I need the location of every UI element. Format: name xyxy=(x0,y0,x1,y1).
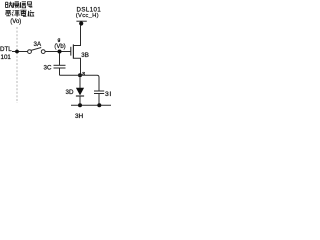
svg-text:(Vb): (Vb) xyxy=(54,44,65,50)
node Vo junction dot xyxy=(15,50,19,54)
信 xyxy=(19,2,22,8)
位 xyxy=(28,10,34,16)
svg-text:3C: 3C xyxy=(44,64,52,71)
node cap-rail junction xyxy=(97,103,101,107)
準 xyxy=(12,10,13,16)
svg-text:3B: 3B xyxy=(81,52,89,59)
wire switch to gate node xyxy=(45,51,70,53)
svg-text:(Vcc_H): (Vcc_H) xyxy=(76,13,99,19)
像 xyxy=(12,2,15,7)
svg-text:3H: 3H xyxy=(75,113,84,120)
label 基準電位 (kanji line 2) xyxy=(5,10,34,16)
svg-text:DTL: DTL xyxy=(0,46,12,53)
svg-text:(Vo): (Vo) xyxy=(10,19,21,25)
基 xyxy=(5,10,11,16)
leader line (Vo) dashed xyxy=(16,27,18,103)
svg-text:s: s xyxy=(82,71,85,77)
号 xyxy=(27,2,32,8)
svg-text:g: g xyxy=(58,38,61,43)
label 映像信号 (kanji line 1) xyxy=(6,2,33,8)
terminal DSL101 (Vcc_H) xyxy=(76,20,86,22)
電 xyxy=(20,10,26,16)
svg-text:3I: 3I xyxy=(105,91,112,98)
svg-text:101: 101 xyxy=(1,54,12,61)
wire DTL101 to switch xyxy=(12,51,28,53)
wire source rail xyxy=(60,74,81,76)
映 xyxy=(6,2,8,7)
node diode-rail junction xyxy=(78,103,82,107)
svg-text:3D: 3D xyxy=(66,89,74,96)
